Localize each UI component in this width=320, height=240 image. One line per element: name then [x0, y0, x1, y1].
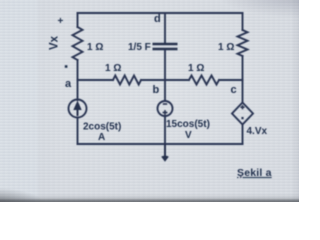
node a	[65, 78, 72, 90]
dependent source E1 diamond	[232, 103, 253, 125]
current source I1 circle	[69, 100, 87, 118]
wire right branch top segment	[242, 13, 244, 30]
label I1 unit A	[98, 132, 105, 143]
node b	[153, 84, 160, 96]
svg-text:15cos(5t): 15cos(5t)	[166, 119, 210, 130]
wire right branch R4 to node c	[242, 56, 244, 80]
label R3 value 1 ohm	[188, 63, 204, 74]
resistor R2 1ohm horizontal a-b	[113, 76, 141, 85]
svg-text:1 Ω: 1 Ω	[105, 63, 121, 74]
polarity minus of Vx	[65, 65, 68, 68]
label Vx rotated	[49, 35, 61, 50]
svg-text:2cos(5t): 2cos(5t)	[83, 122, 121, 133]
wire node a down to current source	[77, 80, 79, 100]
current source I1 arrow	[73, 101, 81, 117]
svg-text:+: +	[58, 16, 64, 27]
wire capacitor branch lower to node b	[164, 50, 166, 80]
svg-text:V: V	[185, 130, 192, 141]
label V1 unit V	[185, 130, 192, 141]
wire middle rail R2 to b	[141, 79, 189, 81]
wire current source to bottom rail	[77, 118, 79, 145]
caption Sekil a	[237, 167, 272, 179]
resistor R3 1ohm horizontal b-c	[189, 76, 219, 85]
svg-text:1 Ω: 1 Ω	[87, 42, 103, 53]
svg-text:a: a	[65, 78, 72, 90]
svg-text:c: c	[231, 84, 237, 96]
wire left branch between R1 and node a	[77, 60, 79, 80]
ground reference arrow	[161, 144, 169, 162]
wire left branch top segment	[77, 13, 79, 27]
label R1 value 1 ohm	[87, 42, 103, 53]
svg-text:1 Ω: 1 Ω	[218, 42, 234, 53]
label E1 value 4.Vx	[247, 126, 268, 137]
wire node b down to voltage source	[164, 80, 166, 101]
svg-text:4.Vx: 4.Vx	[247, 126, 268, 137]
svg-text:b: b	[153, 84, 160, 96]
voltage source V1 circle	[158, 101, 173, 116]
wire voltage source to bottom rail	[164, 116, 166, 144]
svg-text:1 Ω: 1 Ω	[188, 63, 204, 74]
wire middle rail R3 to c	[219, 79, 243, 81]
label I1 value 2cos(5t)	[83, 122, 121, 133]
svg-text:A: A	[98, 132, 105, 143]
dependent source E1 plus mark	[240, 105, 244, 109]
wire node c down to dependent source	[242, 80, 244, 103]
svg-text:1/5 F: 1/5 F	[128, 42, 151, 53]
label R4 value 1 ohm	[218, 42, 234, 53]
svg-text:Şekil a: Şekil a	[237, 167, 272, 179]
label V1 value 15cos(5t)	[166, 119, 210, 130]
wire middle rail a to R2	[78, 79, 114, 81]
wire dependent source to bottom rail	[242, 125, 244, 145]
wire bottom rail	[78, 143, 243, 145]
voltage source V1 minus mark	[163, 103, 167, 105]
node d	[154, 13, 161, 25]
node c	[231, 84, 237, 96]
capacitor C1 1/5 F plates	[153, 44, 178, 49]
label R2 value 1 ohm	[105, 63, 121, 74]
polarity plus of Vx	[58, 16, 64, 27]
label C1 value 1/5 F	[128, 42, 151, 53]
svg-text:d: d	[154, 13, 161, 25]
voltage source V1 plus mark	[163, 110, 168, 115]
wire top rail d-row	[78, 12, 243, 14]
resistor R4 1ohm right vertical	[238, 30, 248, 56]
svg-text:Vx: Vx	[49, 35, 61, 50]
resistor R1 1ohm left vertical	[73, 27, 83, 60]
dependent source E1 minus mark	[241, 117, 243, 119]
wire capacitor branch upper	[164, 13, 166, 43]
